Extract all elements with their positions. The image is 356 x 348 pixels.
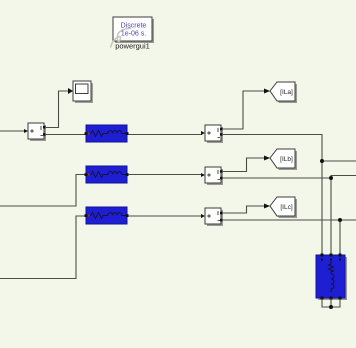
wire: RLC branch 3 to measurement B3	[127, 215, 202, 217]
wire: RLC branch 1 to measurement B1	[127, 134, 202, 136]
wire: measurement B2 lower output to bus column B	[220, 178, 331, 255]
junction dot column C	[338, 218, 342, 222]
wire: branch from column A to right edge	[322, 160, 356, 162]
scope block	[68, 81, 93, 103]
wire: measurement A upper output to scope	[44, 91, 69, 128]
three-phase RLC load (blue block bottom right)	[316, 254, 347, 301]
RLC branch 3 (blue series block, row 3)	[85, 207, 129, 224]
wire: measurement B3 lower output across to right edge	[220, 219, 356, 221]
wire: left feed into RLC branch 2 (row 2)	[0, 175, 86, 207]
wire: RLC branch 2 to measurement B2	[127, 174, 202, 176]
wire: load bottom star connection	[322, 299, 340, 307]
current measurement B1 (row 1)	[201, 125, 223, 143]
wire: measurement B2 upper output to goto ILb	[220, 158, 264, 172]
junction dot column A	[320, 159, 324, 163]
wire: measurement B3 upper output to goto ILc	[220, 206, 264, 213]
svg-text:[ILa]: [ILa]	[280, 89, 293, 96]
svg-text:powergui1: powergui1	[115, 42, 150, 51]
wire: measurement B1 upper output to goto ILa	[220, 91, 264, 129]
svg-text:1e-06 s.: 1e-06 s.	[121, 31, 146, 38]
junction dot column B	[329, 176, 333, 180]
goto tag ILc	[264, 197, 297, 218]
current measurement A (row 1 left)	[24, 123, 46, 141]
wire: branch from column B to right edge	[331, 176, 356, 179]
wire: left feed into RLC branch 3 (row 3)	[0, 216, 86, 279]
current measurement B3 (row 3)	[201, 208, 223, 226]
RLC branch 2 (blue series block, row 2)	[85, 166, 129, 183]
powergui block	[111, 17, 155, 48]
svg-text:Discrete: Discrete	[121, 23, 147, 30]
junction dot star point	[329, 305, 333, 309]
wire: source into current measurement A (row 1)	[0, 130, 25, 132]
current measurement B2 (row 2)	[201, 167, 223, 185]
RLC branch 1 (blue series block, row 1)	[85, 125, 129, 142]
svg-text:[ILc]: [ILc]	[280, 204, 292, 211]
wire: measurement A lower output to RLC branch 1	[44, 134, 86, 136]
wire: measurement B1 lower output to bus column A	[220, 135, 322, 256]
svg-text:[ILb]: [ILb]	[280, 156, 293, 163]
goto tag ILb	[264, 149, 297, 170]
goto tag ILa	[264, 82, 297, 103]
wire: bus column C down to load	[339, 220, 341, 255]
